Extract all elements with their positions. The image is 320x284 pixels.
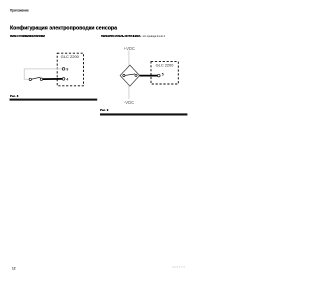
heading "Конфигурация электропроводки сенсора"	[10, 25, 117, 31]
terminal pin 5	[158, 74, 161, 77]
svg-text:+VDC: +VDC	[124, 46, 135, 51]
controller box U1 (GLC 2200, right diagram)	[151, 62, 178, 84]
caption Рис. 9	[100, 109, 108, 112]
svg-text:4: 4	[66, 77, 68, 81]
sensor contact right	[135, 74, 137, 76]
wire +VDC to sensor (grey)	[128, 50, 130, 65]
svg-text:GLC 2200: GLC 2200	[156, 62, 175, 67]
switch S1 contact left	[29, 78, 31, 80]
switch S1 lever	[32, 77, 41, 79]
caption Рис. 8	[10, 95, 18, 98]
wire sensor to terminal 5 (thick)	[140, 75, 158, 77]
wire switch to terminal 4 (thick)	[43, 78, 62, 80]
right column subtitle	[101, 35, 165, 38]
wire from terminal 9 (grey, left diagram)	[24, 69, 62, 80]
svg-text:GLC 2200: GLC 2200	[61, 54, 80, 59]
figure rule (right)	[0, 110, 200, 120]
switch S1 contact right	[40, 78, 42, 80]
sensor contact left	[123, 74, 125, 76]
svg-text:5: 5	[162, 73, 164, 77]
svg-text:9: 9	[66, 67, 68, 71]
sensor lever	[125, 74, 134, 76]
terminal pin 9	[62, 68, 65, 71]
left column subtitle	[10, 35, 45, 38]
page number	[12, 267, 16, 271]
terminal pin 4	[62, 78, 65, 81]
footer doc number	[172, 266, 186, 269]
wire sensor to -VDC (grey)	[128, 86, 130, 99]
sensor SW1 diamond body	[120, 65, 140, 86]
running header "Приложение"	[10, 9, 29, 13]
figure rule (left)	[0, 95, 200, 105]
controller box U1 (GLC 2200, left diagram)	[57, 53, 83, 86]
